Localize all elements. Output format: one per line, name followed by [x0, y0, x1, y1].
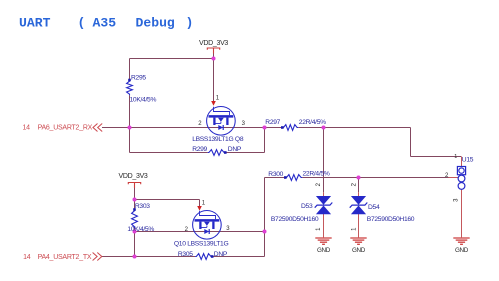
svg-text:R303: R303 [135, 203, 150, 210]
svg-text:10K/4/5%: 10K/4/5% [127, 226, 154, 233]
svg-text:B72590D50H160: B72590D50H160 [367, 216, 415, 223]
svg-text:GND: GND [352, 247, 366, 254]
svg-text:UART: UART [19, 16, 51, 31]
svg-text:DNP: DNP [214, 251, 228, 258]
svg-text:D54: D54 [368, 204, 380, 211]
svg-text:DNP: DNP [228, 146, 242, 153]
svg-text:GND: GND [455, 247, 469, 254]
svg-text:R299: R299 [192, 146, 207, 153]
svg-text:PA6_USART2_RX: PA6_USART2_RX [38, 124, 93, 131]
svg-text:VDD_3V3: VDD_3V3 [119, 173, 148, 180]
svg-text:GND: GND [317, 247, 331, 254]
svg-text:R295: R295 [131, 75, 146, 82]
svg-text:VDD_3V3: VDD_3V3 [199, 40, 228, 47]
svg-text:Debug: Debug [136, 16, 175, 31]
svg-text:B72590D50H160: B72590D50H160 [271, 216, 319, 223]
svg-text:14: 14 [23, 254, 31, 261]
svg-text:14: 14 [23, 124, 31, 131]
svg-text:22R/4/5%: 22R/4/5% [303, 170, 330, 177]
svg-text:A35: A35 [93, 16, 117, 31]
svg-text:22R/4/5%: 22R/4/5% [299, 119, 326, 126]
svg-text:): ) [186, 16, 194, 31]
svg-text:U15: U15 [462, 156, 474, 163]
svg-text:R297: R297 [265, 119, 280, 126]
svg-text:D53: D53 [301, 203, 313, 210]
svg-text:LBSS139LT1G Q8: LBSS139LT1G Q8 [192, 136, 244, 143]
svg-text:1: 1 [454, 154, 457, 160]
svg-text:R305: R305 [178, 251, 193, 258]
svg-text:Q10 LBSS139LT1G: Q10 LBSS139LT1G [174, 240, 229, 247]
svg-text:R300: R300 [268, 171, 283, 178]
svg-text:(: ( [78, 16, 86, 31]
svg-text:PA4_USART2_TX: PA4_USART2_TX [38, 254, 92, 261]
svg-text:10K/4/5%: 10K/4/5% [130, 96, 157, 103]
